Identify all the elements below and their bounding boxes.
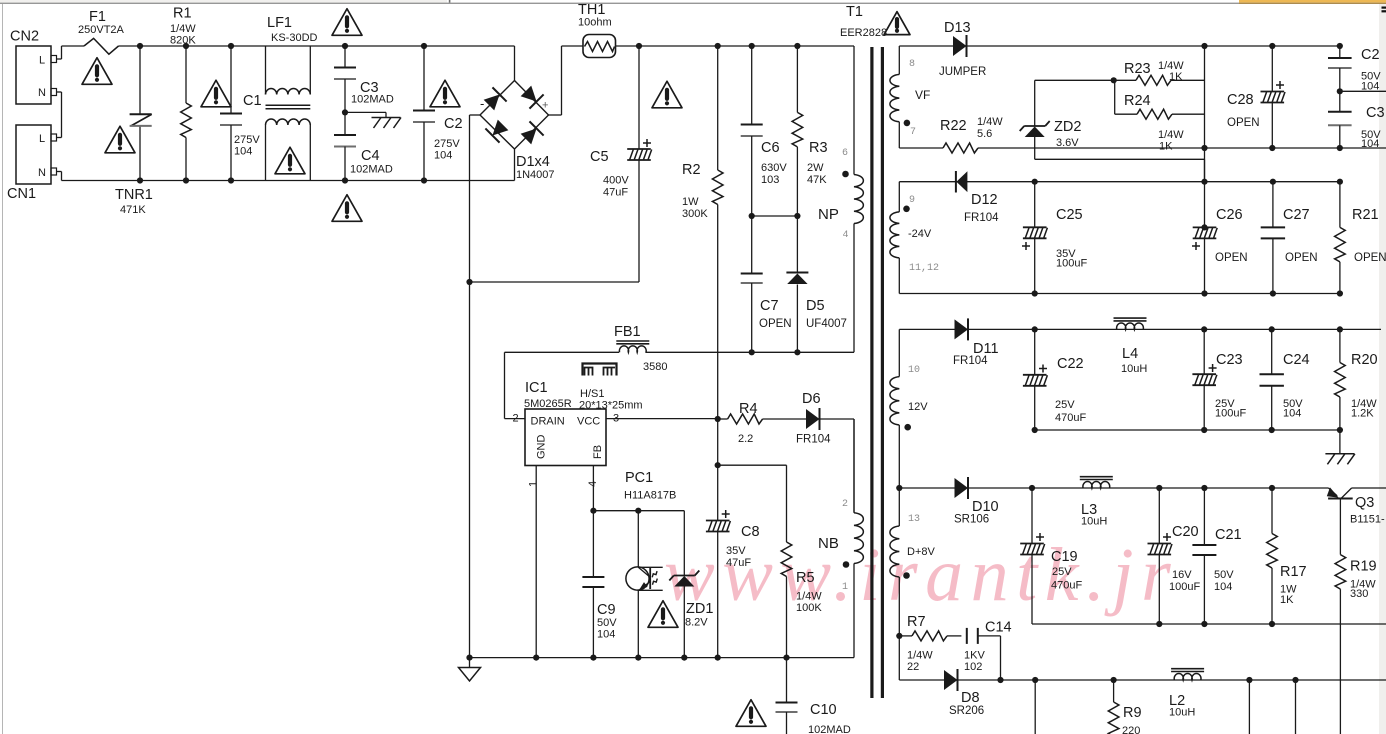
wire -24V bottom rail bbox=[899, 293, 1340, 295]
node R4 left junction bbox=[715, 416, 721, 422]
capacitor C28 bbox=[1269, 43, 1275, 49]
chassis ground at C3-C4 node bbox=[345, 111, 386, 113]
node C2-C3 mid junction bbox=[1337, 88, 1343, 94]
bridge diode top-right bbox=[519, 84, 544, 109]
chassis ground 12V return bbox=[1339, 430, 1341, 454]
page border gray line left bbox=[2, 4, 4, 734]
wire AC bottom rail bbox=[62, 180, 515, 182]
svg-text:R1: R1 bbox=[173, 6, 192, 22]
scrollbar strip right bbox=[1379, 4, 1386, 734]
svg-text:1/4W: 1/4W bbox=[796, 591, 822, 603]
winding VF bbox=[898, 46, 900, 74]
wire secondary top rail bbox=[899, 45, 953, 47]
page top bar left segment bbox=[0, 0, 447, 3]
bridge diode bottom-right bbox=[519, 121, 544, 146]
transformer T1 core bbox=[870, 47, 873, 698]
svg-text:1W: 1W bbox=[682, 196, 699, 208]
svg-text:100uF: 100uF bbox=[1169, 581, 1200, 593]
capacitor C2 output bbox=[1337, 43, 1343, 49]
svg-text:D12: D12 bbox=[971, 192, 998, 208]
svg-text:C21: C21 bbox=[1215, 527, 1242, 543]
node FB-PC1 junction bbox=[590, 508, 596, 514]
resistor R24 bbox=[1114, 80, 1116, 114]
svg-text:NP: NP bbox=[818, 206, 839, 223]
svg-text:C24: C24 bbox=[1283, 352, 1310, 368]
svg-text:F1: F1 bbox=[89, 9, 106, 25]
svg-text:OPEN: OPEN bbox=[1227, 117, 1260, 129]
svg-text:C1: C1 bbox=[243, 93, 262, 109]
diode D6 bbox=[806, 409, 820, 429]
svg-text:C14: C14 bbox=[985, 620, 1012, 636]
bridge rectifier D1x4 bbox=[514, 46, 516, 81]
svg-text:LF1: LF1 bbox=[267, 15, 292, 31]
page top bar tick bbox=[449, 0, 451, 3]
svg-text:104: 104 bbox=[434, 150, 452, 162]
svg-text:820K: 820K bbox=[170, 35, 196, 47]
svg-text:100uF: 100uF bbox=[1056, 258, 1087, 270]
thermistor TH1 bbox=[583, 35, 616, 58]
svg-text:1/4W: 1/4W bbox=[170, 23, 196, 35]
svg-text:R17: R17 bbox=[1280, 564, 1307, 580]
wire CN2.L to top rail bbox=[57, 58, 62, 60]
svg-text:630V: 630V bbox=[761, 162, 787, 174]
svg-text:1: 1 bbox=[842, 582, 848, 593]
svg-text:R4: R4 bbox=[739, 401, 758, 417]
capacitor C5 bbox=[636, 43, 642, 49]
capacitor C1 bbox=[228, 43, 234, 49]
wire IC1 VCC to R4 node bbox=[606, 418, 718, 420]
svg-text:H11A817B: H11A817B bbox=[624, 490, 676, 502]
wire CN1.N to bottom rail bbox=[57, 171, 62, 173]
capacitor C10 bbox=[786, 658, 788, 703]
svg-text:D5: D5 bbox=[806, 298, 825, 314]
svg-text:1K: 1K bbox=[1169, 71, 1183, 83]
capacitor C2 bbox=[421, 43, 427, 49]
svg-text:2W: 2W bbox=[807, 162, 824, 174]
svg-text:KS-30DD: KS-30DD bbox=[271, 32, 318, 44]
resistor R3 bbox=[794, 43, 800, 49]
svg-text:IC1: IC1 bbox=[525, 380, 548, 396]
diode D8 bbox=[944, 670, 958, 690]
svg-text:16V: 16V bbox=[1172, 569, 1192, 581]
capacitor C20 bbox=[1156, 485, 1162, 491]
svg-text:VF: VF bbox=[915, 88, 930, 102]
optocoupler PC1 phototransistor bbox=[626, 567, 649, 590]
svg-text:1N4007: 1N4007 bbox=[516, 169, 555, 181]
resistor R23 bbox=[1136, 75, 1171, 85]
bridge diode bottom-left bbox=[485, 118, 510, 143]
choke LF1 bbox=[265, 46, 267, 95]
wire D6 to NB pin2 bbox=[853, 419, 855, 513]
wire IC1 FB column bbox=[592, 466, 594, 578]
svg-text:C10: C10 bbox=[810, 702, 837, 718]
svg-text:10ohm: 10ohm bbox=[578, 17, 612, 29]
svg-text:-: - bbox=[480, 96, 484, 111]
svg-text:47uF: 47uF bbox=[726, 557, 751, 569]
svg-text:1/4W: 1/4W bbox=[907, 650, 933, 662]
primary ground symbol bbox=[469, 658, 471, 668]
wire bridge plus to TH1 bbox=[549, 114, 562, 116]
capacitor C9 bbox=[582, 576, 604, 578]
svg-text:TNR1: TNR1 bbox=[115, 187, 153, 203]
svg-text:10: 10 bbox=[908, 365, 920, 376]
ferrite bead FB1 bbox=[616, 340, 649, 342]
wire to R5 bbox=[718, 464, 787, 466]
resistor R4 bbox=[728, 414, 763, 424]
node D8 rail junction 3 bbox=[1292, 677, 1298, 683]
svg-text:100uF: 100uF bbox=[1215, 408, 1246, 420]
svg-text:R24: R24 bbox=[1124, 93, 1151, 109]
wire C5 bottom to bridge minus line bbox=[470, 281, 640, 283]
svg-text:C3: C3 bbox=[1366, 105, 1385, 121]
capacitor C3 bbox=[342, 43, 348, 49]
svg-text:275V: 275V bbox=[434, 138, 460, 150]
svg-text:8: 8 bbox=[909, 59, 915, 70]
svg-text:275V: 275V bbox=[234, 134, 260, 146]
node D8 rail junction 2 bbox=[1246, 677, 1252, 683]
svg-text:5.6: 5.6 bbox=[977, 128, 992, 140]
svg-text:R20: R20 bbox=[1351, 352, 1378, 368]
node winding to R7 bbox=[896, 633, 902, 639]
svg-text:ZD2: ZD2 bbox=[1054, 119, 1081, 135]
svg-text:2.2: 2.2 bbox=[738, 433, 753, 445]
svg-text:470uF: 470uF bbox=[1055, 412, 1086, 424]
warning triangle below C4 bbox=[332, 195, 362, 222]
wire AC top rail bbox=[62, 45, 85, 47]
svg-text:1.2K: 1.2K bbox=[1351, 408, 1374, 420]
svg-text:13: 13 bbox=[908, 514, 920, 525]
inductor L3 bbox=[1080, 476, 1113, 478]
resistor R7 bbox=[899, 635, 912, 637]
connector CN2 bbox=[16, 46, 51, 104]
svg-text:C2: C2 bbox=[1361, 47, 1380, 63]
svg-text:D1x4: D1x4 bbox=[516, 154, 550, 170]
svg-text:R22: R22 bbox=[940, 118, 967, 134]
winding 12V bbox=[898, 329, 900, 376]
svg-text:R7: R7 bbox=[907, 614, 926, 630]
diode D5 bbox=[796, 216, 798, 273]
svg-text:5M0265R: 5M0265R bbox=[524, 398, 572, 410]
svg-text:1KV: 1KV bbox=[964, 650, 985, 662]
svg-text:T1: T1 bbox=[846, 4, 863, 20]
svg-text:1/4W: 1/4W bbox=[977, 116, 1003, 128]
svg-text:VCC: VCC bbox=[577, 416, 600, 428]
svg-text:OPEN: OPEN bbox=[759, 318, 792, 330]
svg-text:2: 2 bbox=[513, 413, 519, 425]
resistor R17 bbox=[1269, 485, 1275, 491]
IC U1 5M0265R bbox=[525, 409, 606, 466]
light arrows into PC1 bbox=[651, 571, 659, 577]
svg-text:6: 6 bbox=[842, 148, 848, 159]
resistor R21 bbox=[1337, 179, 1343, 185]
capacitor C22 bbox=[1032, 326, 1038, 332]
svg-text:L4: L4 bbox=[1122, 346, 1138, 362]
svg-text:SR206: SR206 bbox=[949, 705, 984, 717]
svg-text:OPEN: OPEN bbox=[1354, 252, 1386, 264]
svg-text:1K: 1K bbox=[1159, 141, 1173, 153]
svg-text:N: N bbox=[38, 87, 46, 99]
heatsink H/S1 bbox=[583, 364, 617, 376]
svg-text:102MAD: 102MAD bbox=[350, 164, 393, 176]
diode D12 bbox=[955, 171, 957, 193]
zener diode ZD2 bbox=[1034, 80, 1036, 126]
svg-text:9: 9 bbox=[909, 195, 915, 206]
svg-text:470uF: 470uF bbox=[1051, 580, 1082, 592]
svg-text:C22: C22 bbox=[1057, 356, 1084, 372]
svg-text:35V: 35V bbox=[726, 545, 746, 557]
wire 12V rail bbox=[899, 328, 954, 330]
diode D10 bbox=[955, 478, 969, 498]
svg-text:4: 4 bbox=[843, 230, 849, 241]
svg-text:330: 330 bbox=[1350, 588, 1368, 600]
capacitor C3 output bbox=[1339, 91, 1341, 112]
capacitor C27 bbox=[1270, 179, 1276, 185]
wire CN2.N to CN1.L bbox=[57, 91, 62, 93]
svg-text:R9: R9 bbox=[1123, 705, 1142, 721]
varistor TNR1 bbox=[139, 46, 141, 114]
wire VF bottom rail bbox=[899, 147, 943, 149]
svg-text:C20: C20 bbox=[1172, 524, 1199, 540]
capacitor C21 bbox=[1201, 485, 1207, 491]
svg-text:EER2828: EER2828 bbox=[840, 27, 887, 39]
zener diode ZD1 bbox=[683, 511, 685, 576]
bridge diode top-left bbox=[482, 87, 507, 112]
node C8 tap to R5 bbox=[715, 462, 721, 468]
node R23-R24 left junction bbox=[1111, 77, 1117, 83]
svg-text:102MAD: 102MAD bbox=[808, 724, 851, 734]
wire top rail after TH1 bbox=[616, 45, 855, 47]
svg-text:R5: R5 bbox=[796, 570, 815, 586]
wire ZD2 anode return bbox=[1035, 158, 1205, 160]
svg-text:L: L bbox=[39, 133, 45, 145]
wire bridge minus to primary ground bbox=[470, 114, 481, 116]
svg-text:11,12: 11,12 bbox=[909, 263, 939, 274]
svg-text:C9: C9 bbox=[597, 602, 616, 618]
svg-text:R23: R23 bbox=[1124, 61, 1151, 77]
node PC1 collector junction bbox=[635, 508, 641, 514]
svg-text:DRAIN: DRAIN bbox=[531, 416, 565, 428]
capacitor C23 bbox=[1201, 326, 1207, 332]
svg-text:R19: R19 bbox=[1350, 559, 1377, 575]
svg-text:471K: 471K bbox=[120, 204, 146, 216]
svg-text:1K: 1K bbox=[1280, 594, 1294, 606]
transistor Q3 bbox=[1329, 488, 1338, 496]
svg-text:FR104: FR104 bbox=[953, 355, 988, 367]
svg-text:D13: D13 bbox=[944, 20, 971, 36]
capacitor C24 bbox=[1269, 326, 1275, 332]
svg-text:GND: GND bbox=[536, 435, 548, 460]
svg-text:ZD1: ZD1 bbox=[686, 601, 713, 617]
svg-text:102: 102 bbox=[964, 661, 982, 673]
svg-text:FB1: FB1 bbox=[614, 324, 641, 340]
warning triangle near C1 bbox=[201, 80, 231, 107]
svg-text:CN2: CN2 bbox=[10, 29, 39, 45]
svg-text:22: 22 bbox=[907, 661, 919, 673]
node F1-TNR1 junction bbox=[137, 43, 143, 49]
node D8 rail junction 1 bbox=[1032, 677, 1038, 683]
svg-text:400V: 400V bbox=[603, 175, 629, 187]
svg-text:JUMPER: JUMPER bbox=[939, 66, 986, 78]
svg-text:25V: 25V bbox=[1055, 399, 1075, 411]
svg-text:C2: C2 bbox=[444, 116, 463, 132]
warning triangle near C2 bbox=[430, 80, 460, 107]
capacitor C8 bbox=[717, 419, 719, 521]
resistor R19 bbox=[1335, 555, 1346, 590]
svg-text:C27: C27 bbox=[1283, 207, 1310, 223]
svg-text:250VT2A: 250VT2A bbox=[78, 24, 125, 36]
svg-text:C7: C7 bbox=[760, 298, 779, 314]
resistor R1 bbox=[183, 43, 189, 49]
capacitor C6 bbox=[749, 43, 755, 49]
wire ZD2 cathode to R23/R24 node bbox=[1035, 79, 1114, 81]
node C14 return bbox=[997, 677, 1003, 683]
svg-text:C19: C19 bbox=[1051, 549, 1078, 565]
winding NB bbox=[853, 419, 855, 513]
resistor R20 bbox=[1337, 326, 1343, 332]
wire FB1 to IC1 drain bbox=[504, 352, 506, 418]
svg-text:D+8V: D+8V bbox=[907, 546, 935, 558]
resistor R9 bbox=[1111, 677, 1117, 683]
resistor R5 bbox=[781, 542, 792, 577]
svg-text:104: 104 bbox=[234, 146, 252, 158]
svg-text:47uF: 47uF bbox=[603, 187, 628, 199]
svg-text:C8: C8 bbox=[741, 524, 760, 540]
warning triangle above C3 bbox=[332, 9, 362, 36]
warning triangle below TH1 bbox=[652, 81, 682, 108]
svg-text:10uH: 10uH bbox=[1081, 516, 1107, 528]
svg-text:50V: 50V bbox=[1214, 569, 1234, 581]
svg-text:50V: 50V bbox=[597, 617, 617, 629]
wire 12V bottom rail bbox=[1035, 429, 1340, 431]
wire -24V rail bbox=[899, 181, 956, 183]
connector CN1 bbox=[16, 125, 51, 184]
svg-text:SR106: SR106 bbox=[954, 514, 989, 526]
winding NP bbox=[853, 46, 855, 175]
capacitor C14 bbox=[966, 628, 968, 644]
svg-text:C25: C25 bbox=[1056, 207, 1083, 223]
svg-text:C26: C26 bbox=[1216, 207, 1243, 223]
svg-text:C5: C5 bbox=[590, 149, 609, 165]
svg-text:47K: 47K bbox=[807, 174, 827, 186]
svg-text:3580: 3580 bbox=[643, 361, 667, 373]
diode D13 bbox=[953, 36, 967, 56]
page top bar orange segment bbox=[1239, 0, 1386, 3]
svg-text:CN1: CN1 bbox=[7, 186, 36, 202]
warning triangle near ZD1 bbox=[648, 601, 678, 628]
capacitor C19 bbox=[1029, 485, 1035, 491]
svg-text:OPEN: OPEN bbox=[1215, 252, 1248, 264]
svg-text:1/4W: 1/4W bbox=[1158, 129, 1184, 141]
wire 8V rail bbox=[896, 485, 902, 491]
svg-text:10uH: 10uH bbox=[1169, 707, 1195, 719]
diode D11 bbox=[955, 319, 969, 339]
svg-text:PC1: PC1 bbox=[625, 470, 653, 486]
svg-text:C23: C23 bbox=[1216, 352, 1243, 368]
svg-text:FR104: FR104 bbox=[796, 434, 831, 446]
node C6-R3 junction bbox=[749, 213, 755, 219]
svg-text:R21: R21 bbox=[1352, 207, 1379, 223]
svg-text:100K: 100K bbox=[796, 602, 822, 614]
wire IC1 GND column bbox=[535, 466, 537, 658]
svg-text:H/S1: H/S1 bbox=[580, 388, 604, 400]
svg-text:D8: D8 bbox=[961, 690, 980, 706]
wire R23-R24 right column bbox=[1204, 46, 1206, 182]
svg-text:-24V: -24V bbox=[908, 228, 932, 240]
svg-text:FB: FB bbox=[592, 445, 604, 459]
inductor L4 bbox=[1114, 317, 1147, 319]
svg-text:12V: 12V bbox=[908, 401, 928, 413]
svg-text:10uH: 10uH bbox=[1121, 363, 1147, 375]
svg-text:103: 103 bbox=[761, 174, 779, 186]
svg-text:Q3: Q3 bbox=[1355, 495, 1374, 511]
inductor L2 bbox=[1171, 668, 1204, 670]
svg-text:220: 220 bbox=[1122, 725, 1140, 734]
svg-text:OPEN: OPEN bbox=[1285, 252, 1318, 264]
svg-text:R3: R3 bbox=[809, 140, 828, 156]
wire FB node to PC1 and ZD1 bbox=[593, 510, 684, 512]
capacitor C26 bbox=[1201, 224, 1207, 230]
resistor R2 bbox=[715, 43, 721, 49]
svg-text:N: N bbox=[38, 167, 46, 179]
svg-text:C6: C6 bbox=[761, 140, 780, 156]
menu icon top right bbox=[1382, 7, 1386, 9]
capacitor C25 bbox=[1032, 179, 1038, 185]
svg-text:UF4007: UF4007 bbox=[806, 318, 847, 330]
warning triangle near F1 bbox=[82, 58, 112, 85]
warning triangle below LF1 bbox=[275, 147, 305, 174]
resistor R22 bbox=[943, 143, 978, 153]
svg-text:R2: R2 bbox=[682, 162, 701, 178]
svg-text:L: L bbox=[39, 55, 45, 67]
svg-text:1: 1 bbox=[527, 481, 539, 487]
wire drain snubber line (FB1 line) bbox=[505, 351, 620, 353]
wire D8 rail bbox=[899, 679, 944, 681]
svg-text:104: 104 bbox=[1283, 408, 1301, 420]
winding -24V bbox=[898, 182, 900, 212]
svg-text:FR104: FR104 bbox=[964, 212, 999, 224]
svg-text:B1151-: B1151- bbox=[1350, 514, 1385, 526]
warning triangle near T1 bbox=[884, 12, 910, 35]
wire primary ground rail bbox=[470, 657, 855, 659]
svg-text:D6: D6 bbox=[802, 391, 821, 407]
svg-text:2: 2 bbox=[842, 499, 848, 510]
svg-text:+: + bbox=[542, 100, 548, 112]
warning triangle near TNR1 bbox=[105, 126, 135, 153]
svg-text:3.6V: 3.6V bbox=[1056, 137, 1079, 149]
svg-text:C28: C28 bbox=[1227, 92, 1254, 108]
svg-text:104: 104 bbox=[597, 629, 615, 641]
svg-text:102MAD: 102MAD bbox=[351, 94, 394, 106]
svg-text:C4: C4 bbox=[361, 148, 380, 164]
warning triangle near C10 bbox=[736, 700, 766, 727]
fuse F1 bbox=[84, 38, 119, 54]
svg-text:300K: 300K bbox=[682, 208, 708, 220]
wire 8V bottom rail bbox=[1032, 623, 1386, 625]
capacitor C4 bbox=[344, 112, 346, 135]
svg-text:104: 104 bbox=[1361, 138, 1379, 150]
winding D+8V bbox=[898, 488, 900, 526]
svg-text:NB: NB bbox=[818, 535, 839, 552]
svg-text:25V: 25V bbox=[1052, 566, 1072, 578]
capacitor C7 bbox=[751, 216, 753, 274]
svg-text:8.2V: 8.2V bbox=[685, 617, 708, 629]
svg-text:104: 104 bbox=[1214, 581, 1232, 593]
svg-text:7: 7 bbox=[910, 127, 916, 138]
